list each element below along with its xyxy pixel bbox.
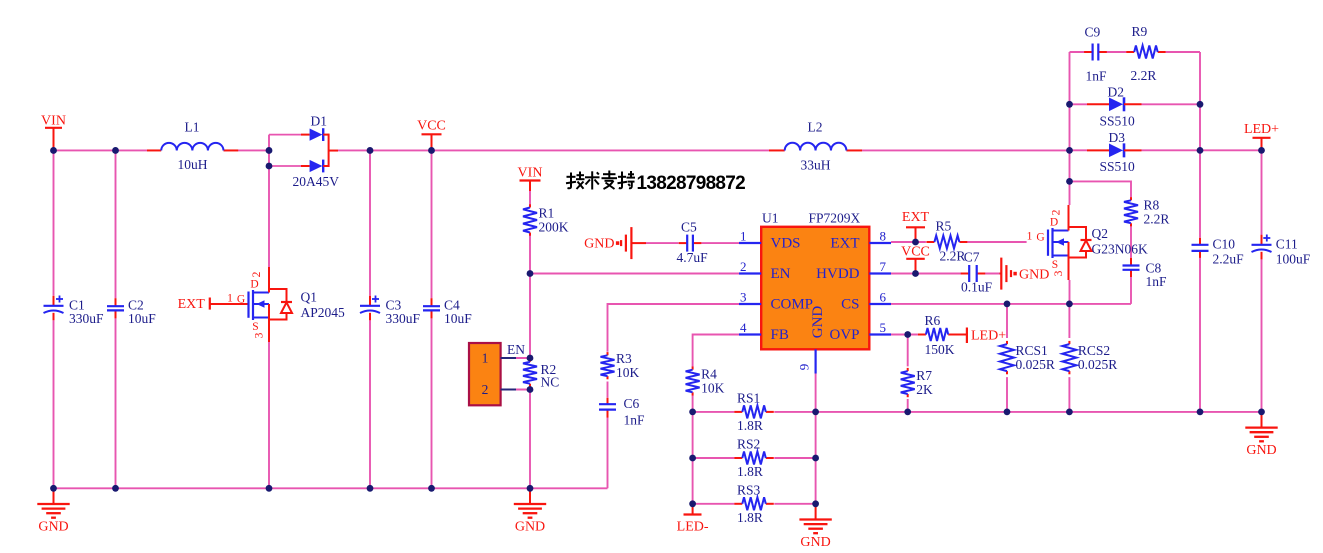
ground symbol GND (under R2 column)	[514, 488, 546, 534]
wire R8/C8 branch	[1070, 181, 1132, 304]
junction node (53.5,488.3)	[50, 485, 57, 492]
junction node (1007,411.9)	[1004, 409, 1011, 416]
svg-text:LED+: LED+	[971, 329, 1006, 344]
svg-text:150K: 150K	[925, 342, 955, 357]
wire EXT row to Q2 gate	[891, 241, 1027, 243]
wire FB row to R4	[693, 335, 739, 504]
svg-text:C5: C5	[681, 220, 697, 235]
junction node (1200,411.9)	[1197, 409, 1204, 416]
ground symbol GND (chip pin 9)	[799, 504, 831, 550]
svg-text:4.7uF: 4.7uF	[677, 250, 709, 265]
svg-text:33uH: 33uH	[801, 158, 831, 173]
wire D2 row	[1070, 103, 1201, 105]
svg-text:GND: GND	[38, 519, 68, 534]
svg-text:R5: R5	[936, 219, 952, 234]
svg-text:C7: C7	[964, 250, 980, 265]
junction node (915.5,242)	[912, 239, 919, 246]
wire CS row	[891, 303, 1131, 305]
wire RS3 row	[693, 503, 816, 505]
svg-text:VDS: VDS	[771, 236, 801, 252]
svg-text:10uF: 10uF	[444, 311, 472, 326]
wire C10 column	[1199, 52, 1201, 412]
resistor R6	[918, 313, 956, 357]
power port VCC (at C7)	[901, 245, 930, 274]
ground port GND (at C7)	[1000, 258, 1050, 290]
svg-text:10K: 10K	[701, 381, 725, 396]
svg-text:C9: C9	[1085, 25, 1101, 40]
wire RCS2 column	[1068, 304, 1070, 412]
junction node (1007,303.9)	[1004, 301, 1011, 308]
resistor RCS1	[1000, 341, 1055, 374]
svg-text:D3: D3	[1109, 130, 1126, 145]
svg-text:13828798872: 13828798872	[637, 173, 746, 194]
svg-text:VIN: VIN	[41, 114, 66, 129]
svg-text:9: 9	[797, 364, 812, 371]
capacitor C3	[360, 296, 421, 326]
svg-text:U1: U1	[762, 211, 779, 226]
capacitor C2	[107, 298, 156, 326]
capacitor C1	[44, 296, 105, 326]
svg-text:R4: R4	[701, 367, 717, 382]
power port LED+ (at R6)	[950, 328, 1006, 344]
wire LED+ rail	[1070, 149, 1262, 151]
svg-text:1nF: 1nF	[1146, 274, 1168, 289]
svg-text:S: S	[1052, 259, 1058, 271]
svg-text:FB: FB	[771, 327, 789, 343]
wire HVDD row	[891, 273, 1000, 275]
wire GND rail right	[693, 411, 1262, 413]
svg-text:RS3: RS3	[737, 482, 761, 497]
svg-text:OVP: OVP	[829, 327, 859, 343]
svg-text:RCS1: RCS1	[1016, 343, 1048, 358]
svg-text:1: 1	[482, 350, 489, 365]
svg-text:R1: R1	[539, 206, 555, 221]
wire RS2 row	[693, 457, 816, 459]
svg-text:C10: C10	[1213, 237, 1236, 252]
svg-text:VCC: VCC	[417, 119, 446, 134]
resistor RS2	[734, 437, 774, 480]
svg-text:2: 2	[251, 271, 263, 277]
diode D2	[1087, 85, 1142, 129]
capacitor C7	[961, 250, 993, 295]
wire C3 column	[369, 150, 371, 488]
svg-text:LED-: LED-	[677, 520, 709, 535]
svg-text:7: 7	[880, 259, 887, 274]
svg-text:COMP: COMP	[771, 297, 814, 313]
capacitor C11	[1252, 235, 1311, 267]
junction node (815.6,458)	[812, 455, 819, 462]
wire Q1 drain column	[268, 135, 270, 267]
svg-text:10uH: 10uH	[178, 157, 208, 172]
wire Q2 drain column	[1069, 52, 1071, 205]
junction node (431.5,150.45)	[428, 147, 435, 154]
junction node (269,150.45)	[266, 147, 273, 154]
capacitor C8	[1123, 258, 1168, 289]
wire EN connector stubs	[516, 358, 530, 390]
junction node (907.7,334.5)	[904, 331, 911, 338]
junction node (370,488.3)	[367, 485, 374, 492]
svg-text:LED+: LED+	[1244, 122, 1279, 137]
svg-text:D1: D1	[311, 114, 328, 129]
svg-text:8: 8	[880, 229, 887, 244]
connector EN header (pins 1,2)	[469, 342, 525, 406]
svg-text:G23N06K: G23N06K	[1092, 241, 1148, 256]
resistor RCS2	[1062, 341, 1117, 374]
svg-text:S: S	[252, 321, 258, 333]
svg-text:R7: R7	[916, 368, 932, 383]
svg-text:GND: GND	[800, 535, 830, 550]
power port LED-	[677, 504, 709, 535]
wire SW rail after L2	[862, 149, 1070, 151]
junction node (1069.4,303.9)	[1066, 301, 1073, 308]
ground symbol GND (left rail)	[37, 488, 69, 534]
svg-text:2.2R: 2.2R	[1144, 211, 1170, 226]
resistor R4	[686, 367, 725, 396]
support text (Chinese + phone)	[566, 171, 745, 195]
svg-text:10K: 10K	[616, 365, 640, 380]
svg-text:2: 2	[740, 259, 747, 274]
svg-text:Q1: Q1	[301, 290, 318, 305]
wire EN row	[530, 273, 739, 275]
inductor L1	[147, 120, 238, 173]
power port LED+ (top right)	[1244, 122, 1279, 150]
wire VCC rail	[338, 149, 769, 151]
svg-text:C6: C6	[624, 396, 640, 411]
resistor R1	[523, 204, 569, 235]
svg-text:1: 1	[227, 293, 233, 305]
wire C5 row	[646, 242, 739, 244]
svg-text:RS1: RS1	[737, 390, 760, 405]
svg-text:2.2R: 2.2R	[940, 249, 966, 264]
wire OVP row	[891, 334, 918, 336]
junction node (1200,104.3)	[1197, 101, 1204, 108]
junction node (115.5,488.3)	[112, 485, 119, 492]
svg-text:R3: R3	[616, 351, 632, 366]
svg-text:2: 2	[1051, 209, 1063, 215]
svg-text:RS2: RS2	[737, 437, 760, 452]
svg-text:20A45V: 20A45V	[293, 174, 340, 189]
svg-text:GND: GND	[515, 519, 545, 534]
svg-text:1: 1	[1027, 231, 1033, 243]
junction node (1069.5,104.3)	[1066, 101, 1073, 108]
wire chip GND column	[815, 374, 817, 504]
wire R7 column	[907, 335, 909, 412]
svg-text:6: 6	[880, 290, 887, 305]
junction node (1261.5,411.9)	[1258, 409, 1265, 416]
ground port GND (at C5)	[584, 227, 646, 259]
svg-text:NC: NC	[541, 375, 560, 390]
capacitor C9	[1084, 25, 1107, 84]
svg-text:1.8R: 1.8R	[737, 464, 763, 479]
wire Q1 source column	[268, 342, 270, 488]
svg-text:R8: R8	[1144, 197, 1160, 212]
junction node (692.6,411.9)	[689, 409, 696, 416]
junction node (115.5,150.45)	[112, 147, 119, 154]
svg-text:SS510: SS510	[1100, 114, 1136, 129]
junction node (815.6,411.9)	[812, 409, 819, 416]
power port EXT (at Q1 gate)	[178, 297, 249, 312]
capacitor C4	[423, 298, 472, 326]
svg-text:GND: GND	[810, 306, 826, 339]
resistor R5	[926, 219, 967, 264]
resistor R7	[901, 368, 933, 397]
junction node (530,358)	[527, 355, 534, 362]
diode D3	[1087, 130, 1142, 174]
svg-text:EXT: EXT	[902, 210, 930, 225]
svg-text:3: 3	[254, 332, 266, 338]
junction node (1200,150.35)	[1197, 147, 1204, 154]
junction node (370,150.45)	[367, 147, 374, 154]
resistor R9	[1126, 24, 1166, 83]
inductor L2	[769, 120, 862, 173]
svg-text:2K: 2K	[916, 382, 933, 397]
wire GND rail left	[54, 487, 608, 489]
svg-text:D: D	[1050, 217, 1058, 229]
junction node (530,273.5)	[527, 270, 534, 277]
junction node (692.6,458)	[689, 455, 696, 462]
junction node (1069.5,181.4)	[1066, 178, 1073, 185]
svg-text:1.8R: 1.8R	[737, 418, 763, 433]
wire C4 column	[431, 150, 433, 488]
svg-text:5: 5	[880, 320, 887, 335]
junction node (431.5,488.3)	[428, 485, 435, 492]
svg-text:330uF: 330uF	[386, 311, 421, 326]
wire COMP row to R3/C6	[608, 304, 740, 488]
junction node (530,488.3)	[527, 485, 534, 492]
svg-text:G: G	[1036, 232, 1044, 244]
svg-text:FP7209X: FP7209X	[809, 211, 861, 226]
svg-text:0.025R: 0.025R	[1078, 357, 1117, 372]
svg-text:200K: 200K	[539, 220, 569, 235]
power port VCC (rail)	[417, 119, 446, 151]
wire C11 column	[1261, 150, 1263, 412]
capacitor C6	[599, 396, 645, 428]
wire VIN rail	[54, 149, 270, 151]
svg-text:C11: C11	[1276, 237, 1298, 252]
svg-text:1.8R: 1.8R	[737, 510, 763, 525]
svg-text:G: G	[237, 294, 245, 306]
svg-text:AP2045: AP2045	[301, 305, 346, 320]
wire Q2 source to CS row	[1069, 280, 1071, 304]
wire snubber top row	[1070, 51, 1201, 53]
svg-text:1nF: 1nF	[1086, 68, 1108, 83]
junction node (53.5,150.45)	[50, 147, 57, 154]
svg-text:CS: CS	[841, 297, 859, 313]
svg-text:L2: L2	[808, 120, 823, 135]
junction node (1069.4,411.9)	[1066, 409, 1073, 416]
svg-text:EN: EN	[507, 342, 525, 357]
junction node (907.7,411.9)	[904, 409, 911, 416]
svg-text:SS510: SS510	[1100, 159, 1136, 174]
svg-text:Q2: Q2	[1092, 226, 1109, 241]
resistor RS1	[734, 390, 774, 433]
junction node (269,166)	[266, 163, 273, 170]
junction node (1069.5,150.35)	[1066, 147, 1073, 154]
svg-text:4: 4	[740, 320, 747, 335]
wire R1/R2 column	[529, 191, 531, 488]
svg-text:EN: EN	[771, 266, 791, 282]
transistor Q2 (G23N06K NMOS)	[1027, 205, 1092, 280]
junction node (915.5,273.5)	[912, 270, 919, 277]
svg-text:0.1uF: 0.1uF	[961, 279, 993, 294]
svg-text:2: 2	[482, 382, 489, 397]
svg-text:GND: GND	[1246, 443, 1276, 458]
power port VIN (at R1)	[518, 166, 543, 192]
svg-text:0.025R: 0.025R	[1016, 357, 1055, 372]
svg-text:2.2uF: 2.2uF	[1213, 251, 1245, 266]
svg-text:330uF: 330uF	[69, 311, 104, 326]
IC U1 FP7209X LED driver controller	[739, 211, 891, 374]
resistor RS3	[734, 482, 774, 525]
svg-text:3: 3	[1053, 270, 1065, 276]
svg-text:EXT: EXT	[178, 297, 206, 312]
svg-text:R6: R6	[925, 313, 941, 328]
svg-text:1: 1	[740, 229, 747, 244]
capacitor C10	[1192, 237, 1245, 267]
ground symbol GND (right rail)	[1245, 412, 1277, 458]
svg-text:VCC: VCC	[901, 245, 930, 260]
svg-text:L1: L1	[185, 120, 200, 135]
junction node (530,389.5)	[527, 386, 534, 393]
resistor R8	[1124, 197, 1169, 226]
svg-text:VIN: VIN	[518, 166, 543, 181]
svg-text:R9: R9	[1132, 24, 1148, 39]
svg-text:D: D	[250, 279, 258, 291]
svg-text:EXT: EXT	[830, 236, 859, 252]
wire C2 column	[115, 150, 117, 488]
resistor R3	[601, 351, 640, 380]
resistor R2	[523, 359, 559, 390]
svg-text:1nF: 1nF	[624, 412, 646, 427]
capacitor C5	[677, 220, 709, 265]
svg-text:HVDD: HVDD	[816, 266, 859, 282]
svg-text:100uF: 100uF	[1276, 251, 1311, 266]
svg-text:GND: GND	[1019, 268, 1049, 283]
svg-text:GND: GND	[584, 236, 614, 251]
junction node (815.6,503.8)	[812, 500, 819, 507]
svg-text:10uF: 10uF	[128, 311, 156, 326]
transistor Q1 (AP2045 NMOS)	[227, 267, 292, 342]
junction node (1261.5,150.35)	[1258, 147, 1265, 154]
power port EXT (at R5)	[902, 210, 930, 242]
svg-text:2.2R: 2.2R	[1131, 68, 1157, 83]
power port VIN (input)	[41, 114, 66, 151]
junction node (269,488.3)	[266, 485, 273, 492]
wire C1 column	[53, 150, 55, 488]
svg-text:D2: D2	[1108, 85, 1125, 100]
junction node (692.6,503.8)	[689, 500, 696, 507]
svg-text:3: 3	[740, 290, 747, 305]
svg-text:RCS2: RCS2	[1078, 343, 1110, 358]
wire RCS1 column	[1006, 304, 1008, 412]
diode D1 (dual 20A45V)	[269, 114, 339, 189]
